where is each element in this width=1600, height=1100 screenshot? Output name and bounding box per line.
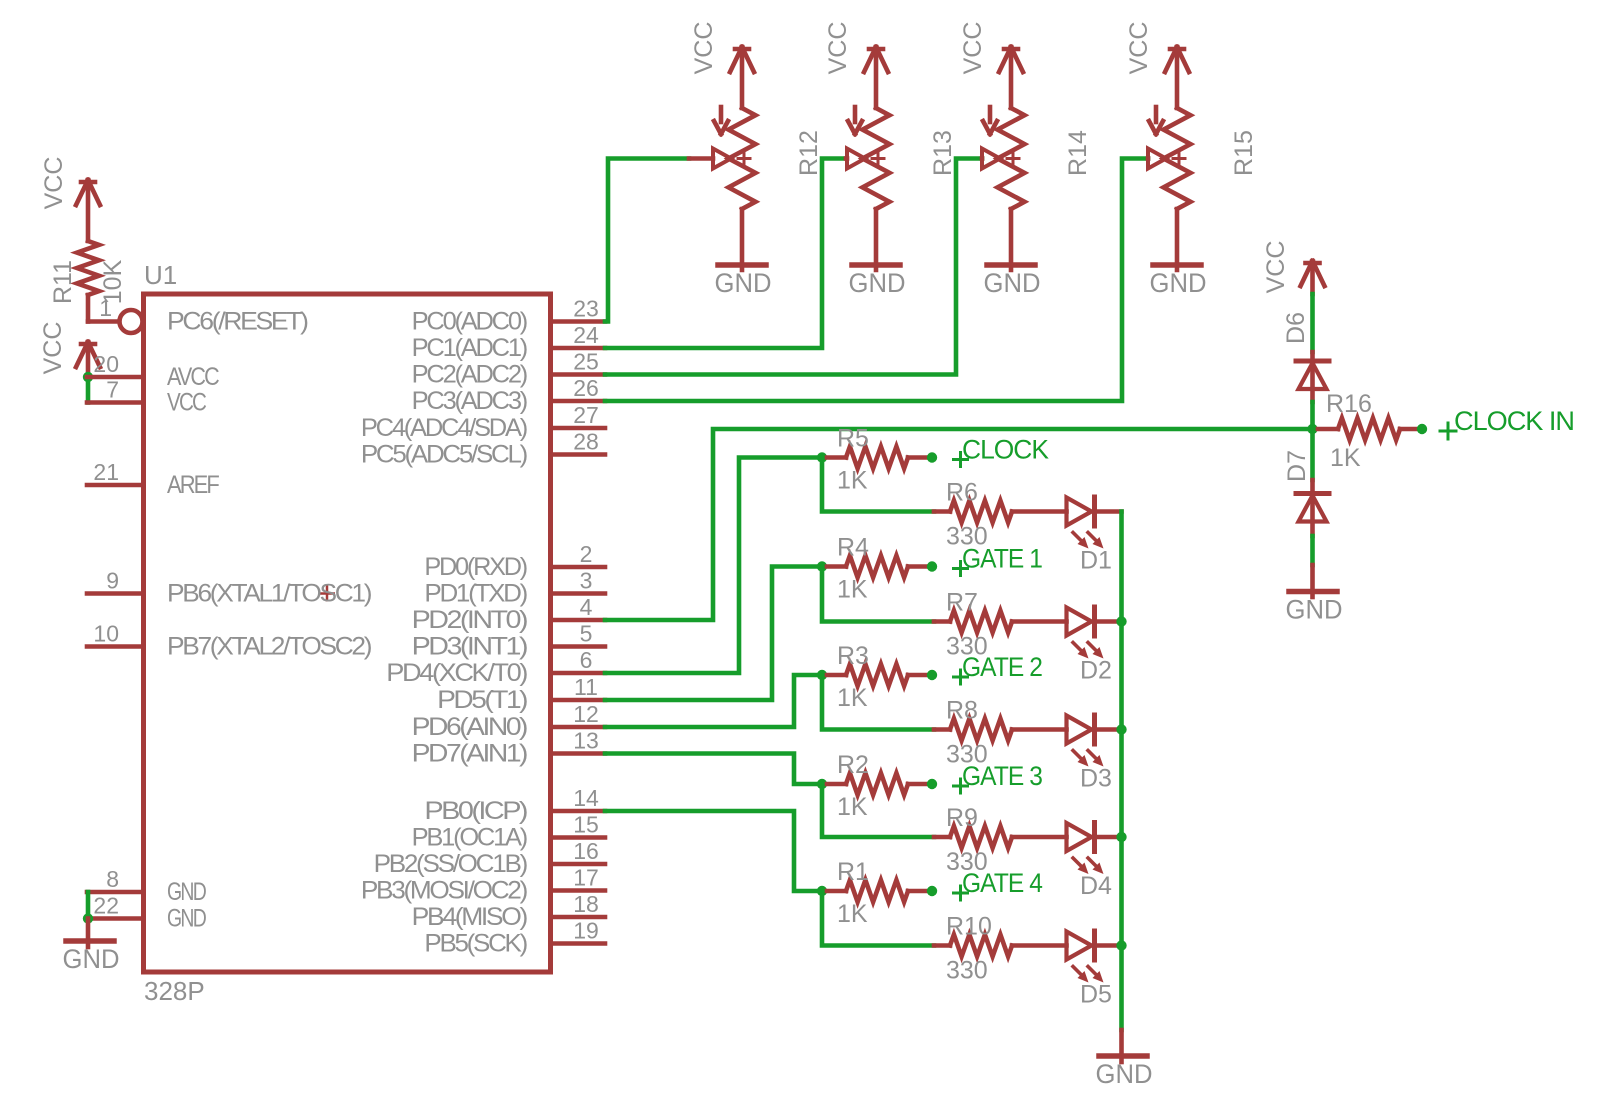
pin 6 PD4(XCK/T0) [386, 647, 605, 687]
pin 19 PB5(SCK) [424, 918, 605, 958]
wire R14 to ground [1009, 209, 1014, 270]
net label CLOCK IN [1440, 406, 1574, 439]
svg-text:20: 20 [93, 351, 119, 377]
svg-text:PC5(ADC5/SCL): PC5(ADC5/SCL) [361, 441, 527, 469]
net stub dot GATE 1 [927, 561, 937, 571]
svg-text:U1: U1 [144, 260, 177, 290]
wire R8 feed [822, 675, 934, 730]
node stub dot CLOCK IN [1417, 424, 1427, 434]
power VCC (R11 pull-up) [40, 157, 100, 241]
svg-text:PC1(ADC1): PC1(ADC1) [412, 334, 527, 362]
svg-text:D5: D5 [1080, 981, 1112, 1009]
IC U1 ATmega328P body [144, 260, 551, 1006]
resistor R4 1K [827, 534, 926, 604]
power VCC (R13) [824, 22, 888, 108]
svg-text:8: 8 [106, 866, 119, 892]
pin 1 reset bubble [99, 295, 142, 333]
svg-text:PB3(MOSI/OC2): PB3(MOSI/OC2) [361, 877, 527, 905]
svg-text:R8: R8 [946, 697, 978, 725]
net stub dot GATE 2 [927, 670, 937, 680]
net label CLOCK [954, 435, 1049, 467]
svg-text:PD4(XCK/T0): PD4(XCK/T0) [386, 659, 527, 687]
svg-text:22: 22 [93, 893, 119, 919]
wire PD5/T1 pin 11 to R4 [605, 567, 817, 701]
svg-text:R1: R1 [837, 858, 869, 886]
svg-text:VCC: VCC [167, 389, 207, 417]
potentiometer R15 [1148, 107, 1258, 209]
svg-text:D2: D2 [1080, 657, 1112, 685]
resistor R2 1K [827, 751, 926, 821]
svg-text:PC4(ADC4/SDA): PC4(ADC4/SDA) [361, 414, 527, 442]
pin 8 GND [87, 866, 206, 906]
pin 2 PD0(RXD) [424, 541, 605, 581]
svg-text:GND: GND [167, 905, 206, 933]
svg-text:3: 3 [580, 568, 593, 594]
pin 1 PC6(/RESET) [167, 308, 308, 336]
svg-text:GND: GND [1096, 1059, 1153, 1089]
resistor R7 330 [934, 589, 1067, 661]
svg-text:D7: D7 [1283, 450, 1311, 482]
svg-text:11: 11 [574, 674, 598, 700]
pin 27 PC4(ADC4/SDA) [361, 402, 605, 442]
resistor R11 10K [49, 241, 127, 304]
net label GATE 3 [954, 761, 1043, 793]
svg-text:330: 330 [946, 523, 988, 551]
diode D6 [1282, 312, 1329, 402]
svg-text:GND: GND [1286, 595, 1343, 625]
svg-text:24: 24 [573, 322, 599, 348]
wire R11 to reset pin [88, 295, 119, 322]
svg-text:1K: 1K [837, 576, 868, 604]
pin 21 AREF [87, 459, 219, 499]
wire AVCC to VCC pin [86, 377, 91, 403]
svg-text:17: 17 [573, 865, 599, 891]
ground R13 [849, 265, 906, 298]
svg-text:GND: GND [715, 268, 772, 298]
potentiometer R12 [689, 107, 823, 209]
svg-text:R11: R11 [49, 260, 77, 304]
LED D2 [1067, 607, 1122, 685]
svg-text:R4: R4 [837, 534, 869, 562]
ground R14 [984, 265, 1041, 298]
pin 17 PB3(MOSI/OC2) [361, 865, 605, 905]
svg-text:R2: R2 [837, 751, 869, 779]
svg-text:VCC: VCC [690, 22, 718, 75]
junction dot GND pins [83, 913, 93, 923]
svg-text:PC6(/RESET): PC6(/RESET) [167, 308, 308, 336]
svg-text:VCC: VCC [824, 22, 852, 75]
svg-text:R7: R7 [946, 589, 978, 617]
svg-text:4: 4 [580, 594, 593, 620]
svg-text:R6: R6 [946, 479, 978, 507]
ground D7 [1286, 592, 1343, 625]
wire GND pins [86, 892, 91, 919]
resistor R5 1K [827, 425, 926, 495]
svg-text:PD6(AIN0): PD6(AIN0) [412, 713, 527, 741]
svg-text:VCC: VCC [1125, 22, 1153, 75]
svg-text:R15: R15 [1230, 130, 1258, 176]
svg-text:VCC: VCC [40, 157, 68, 210]
pin 16 PB2(SS/OC1B) [374, 838, 605, 878]
resistor R10 330 [934, 913, 1067, 985]
pin 12 PD6(AIN0) [412, 701, 605, 741]
svg-text:9: 9 [106, 568, 119, 594]
wire PC0 pin 23 to R12 wiper [605, 159, 689, 322]
junction dot cathode rail [1116, 940, 1126, 950]
svg-text:R5: R5 [837, 425, 869, 453]
svg-text:28: 28 [573, 429, 599, 455]
pin 7 VCC [87, 377, 207, 417]
svg-text:GND: GND [1150, 268, 1207, 298]
pin 24 PC1(ADC1) [412, 322, 605, 362]
svg-text:AVCC: AVCC [167, 363, 220, 391]
wire D7 to ground [1310, 536, 1315, 597]
svg-text:5: 5 [580, 621, 593, 647]
pin 5 PD3(INT1) [412, 621, 605, 661]
svg-text:PD0(RXD): PD0(RXD) [424, 553, 526, 581]
junction dot cathode rail [1116, 724, 1126, 734]
wire rail to ground [1119, 1030, 1124, 1062]
wire R7 feed [822, 567, 934, 622]
svg-text:PC0(ADC0): PC0(ADC0) [412, 308, 527, 336]
resistor R9 330 [934, 804, 1067, 876]
LED D3 [1067, 715, 1122, 793]
svg-text:26: 26 [573, 375, 599, 401]
resistor R8 330 [934, 697, 1067, 769]
svg-text:VCC: VCC [39, 322, 67, 375]
wire R13 to ground [874, 209, 879, 270]
wire R9 feed [822, 784, 934, 837]
LED D5 [1067, 931, 1122, 1009]
svg-text:13: 13 [573, 728, 599, 754]
svg-text:D3: D3 [1080, 765, 1112, 793]
wire node to D7 [1310, 435, 1315, 481]
wire PD7/AIN1 pin 13 to R2 [605, 754, 817, 785]
svg-text:330: 330 [946, 957, 988, 985]
svg-text:PB5(SCK): PB5(SCK) [424, 930, 526, 958]
LED D1 [1067, 497, 1122, 575]
svg-text:27: 27 [573, 402, 599, 428]
svg-text:AREF: AREF [167, 471, 219, 499]
junction dot R3 node [817, 670, 827, 680]
potentiometer R14 [982, 107, 1092, 209]
wire PD2/INT0 to CLOCK IN node [605, 429, 1313, 620]
svg-text:R3: R3 [837, 642, 869, 670]
svg-text:23: 23 [573, 296, 599, 322]
svg-text:330: 330 [946, 848, 988, 876]
pin 22 GND [87, 893, 206, 933]
ground R12 [715, 265, 772, 298]
pin 14 PB0(ICP) [424, 785, 605, 825]
svg-text:R12: R12 [795, 130, 823, 176]
pin 3 PD1(TXD) [424, 568, 605, 608]
svg-text:CLOCK: CLOCK [962, 435, 1049, 465]
svg-text:1: 1 [99, 295, 112, 321]
svg-text:PB7(XTAL2/TOSC2): PB7(XTAL2/TOSC2) [167, 633, 371, 661]
svg-text:VCC: VCC [959, 22, 987, 75]
net label GATE 4 [954, 868, 1043, 900]
svg-text:15: 15 [573, 812, 599, 838]
svg-text:PB2(SS/OC1B): PB2(SS/OC1B) [374, 850, 527, 878]
svg-text:10: 10 [93, 621, 119, 647]
net stub dot GATE 4 [927, 886, 937, 896]
svg-text:PB6(XTAL1/TOSC1): PB6(XTAL1/TOSC1) [167, 580, 371, 608]
svg-text:CLOCK IN: CLOCK IN [1454, 406, 1574, 436]
svg-text:14: 14 [573, 785, 599, 811]
svg-text:GND: GND [849, 268, 906, 298]
pin 13 PD7(AIN1) [412, 728, 605, 768]
pin 28 PC5(ADC5/SCL) [361, 429, 605, 469]
svg-text:16: 16 [573, 838, 599, 864]
svg-text:7: 7 [106, 377, 119, 403]
power VCC (D6) [1262, 241, 1325, 294]
svg-text:25: 25 [573, 349, 599, 375]
svg-text:PD7(AIN1): PD7(AIN1) [412, 740, 527, 768]
pin 23 PC0(ADC0) [412, 296, 605, 336]
svg-text:21: 21 [93, 459, 119, 485]
diode D7 [1283, 450, 1329, 536]
svg-text:PD2(INT0): PD2(INT0) [412, 606, 527, 634]
svg-text:1K: 1K [1330, 444, 1361, 472]
svg-text:330: 330 [946, 741, 988, 769]
junction dot R1 node [817, 886, 827, 896]
wire PC3 pin 26 to R15 wiper [605, 159, 1148, 402]
svg-text:R9: R9 [946, 804, 978, 832]
wire VCC to D6 [1310, 294, 1315, 352]
svg-text:19: 19 [573, 918, 599, 944]
resistor R16 1K [1318, 390, 1416, 472]
pin 26 PC3(ADC3) [412, 375, 605, 415]
svg-text:VCC: VCC [1262, 241, 1290, 294]
wire R12 to ground [740, 209, 745, 270]
svg-text:PB1(OC1A): PB1(OC1A) [412, 824, 527, 852]
wire R6 feed [822, 458, 934, 512]
wire PC2 pin 25 to R14 wiper [605, 159, 982, 375]
svg-text:PB0(ICP): PB0(ICP) [424, 797, 527, 825]
svg-text:18: 18 [573, 891, 599, 917]
wire LED cathode rail [1119, 512, 1124, 1031]
pin 4 PD2(INT0) [412, 594, 605, 634]
resistor R3 1K [827, 642, 926, 712]
svg-text:1K: 1K [837, 793, 868, 821]
pin 9 PB6(XTAL1/TOSC1) [87, 568, 371, 608]
net stub dot CLOCK [927, 452, 937, 462]
net stub dot GATE 3 [927, 779, 937, 789]
svg-text:330: 330 [946, 633, 988, 661]
pin 20 AVCC [87, 351, 220, 391]
pin 18 PB4(MISO) [412, 891, 605, 931]
wire PD4/XCK pin 6 to R5 [605, 458, 817, 674]
ground MCU [63, 919, 120, 975]
wire PC1 pin 24 to R13 wiper [605, 159, 846, 349]
svg-text:R16: R16 [1326, 390, 1372, 418]
junction dot R5 node [817, 452, 827, 462]
net label GATE 2 [954, 652, 1043, 684]
svg-text:PD3(INT1): PD3(INT1) [412, 633, 527, 661]
junction dot R2 node [817, 779, 827, 789]
svg-text:328P: 328P [144, 976, 205, 1006]
pin 10 PB7(XTAL2/TOSC2) [87, 621, 371, 661]
junction dot R4 node [817, 561, 827, 571]
svg-text:6: 6 [580, 647, 593, 673]
pin 11 PD5(T1) [437, 674, 605, 714]
wire PB0/ICP pin 14 to R1 [605, 811, 817, 891]
svg-text:R14: R14 [1064, 130, 1092, 176]
svg-text:1K: 1K [837, 684, 868, 712]
power VCC (AVCC) [39, 322, 100, 377]
svg-text:2: 2 [580, 541, 593, 567]
power VCC (R15) [1125, 22, 1189, 108]
svg-text:GND: GND [167, 878, 206, 906]
junction dot AVCC [83, 372, 93, 382]
svg-text:12: 12 [573, 701, 599, 727]
resistor R1 1K [827, 858, 926, 928]
ground LED rail [1096, 1056, 1153, 1089]
svg-text:D4: D4 [1080, 872, 1112, 900]
net label GATE 1 [954, 544, 1043, 576]
power VCC (R14) [959, 22, 1023, 108]
wire R10 feed [822, 891, 934, 946]
svg-text:PD5(T1): PD5(T1) [437, 686, 527, 714]
svg-text:1K: 1K [837, 900, 868, 928]
svg-text:R10: R10 [946, 913, 992, 941]
svg-text:GND: GND [63, 944, 120, 974]
junction dot cathode rail [1116, 832, 1126, 842]
wire PD6/AIN0 pin 12 to R3 [605, 675, 817, 727]
LED D4 [1067, 823, 1122, 901]
power VCC (R12) [690, 22, 754, 108]
wire D6 to node [1310, 402, 1315, 424]
pin 15 PB1(OC1A) [412, 812, 605, 852]
svg-text:PB4(MISO): PB4(MISO) [412, 903, 527, 931]
svg-text:1K: 1K [837, 467, 868, 495]
svg-text:D6: D6 [1282, 312, 1310, 344]
junction dot CLOCK IN node [1307, 424, 1317, 434]
ground R15 [1150, 265, 1207, 298]
svg-text:PC2(ADC2): PC2(ADC2) [412, 361, 527, 389]
svg-text:R13: R13 [929, 130, 957, 176]
resistor R6 330 [934, 479, 1067, 551]
pin 25 PC2(ADC2) [412, 349, 605, 389]
svg-text:D1: D1 [1080, 547, 1112, 575]
svg-text:PC3(ADC3): PC3(ADC3) [412, 387, 527, 415]
wire R15 to ground [1175, 209, 1180, 270]
junction dot cathode rail [1116, 616, 1126, 626]
svg-text:GND: GND [984, 268, 1041, 298]
potentiometer R13 [846, 107, 957, 209]
svg-text:PD1(TXD): PD1(TXD) [424, 580, 527, 608]
